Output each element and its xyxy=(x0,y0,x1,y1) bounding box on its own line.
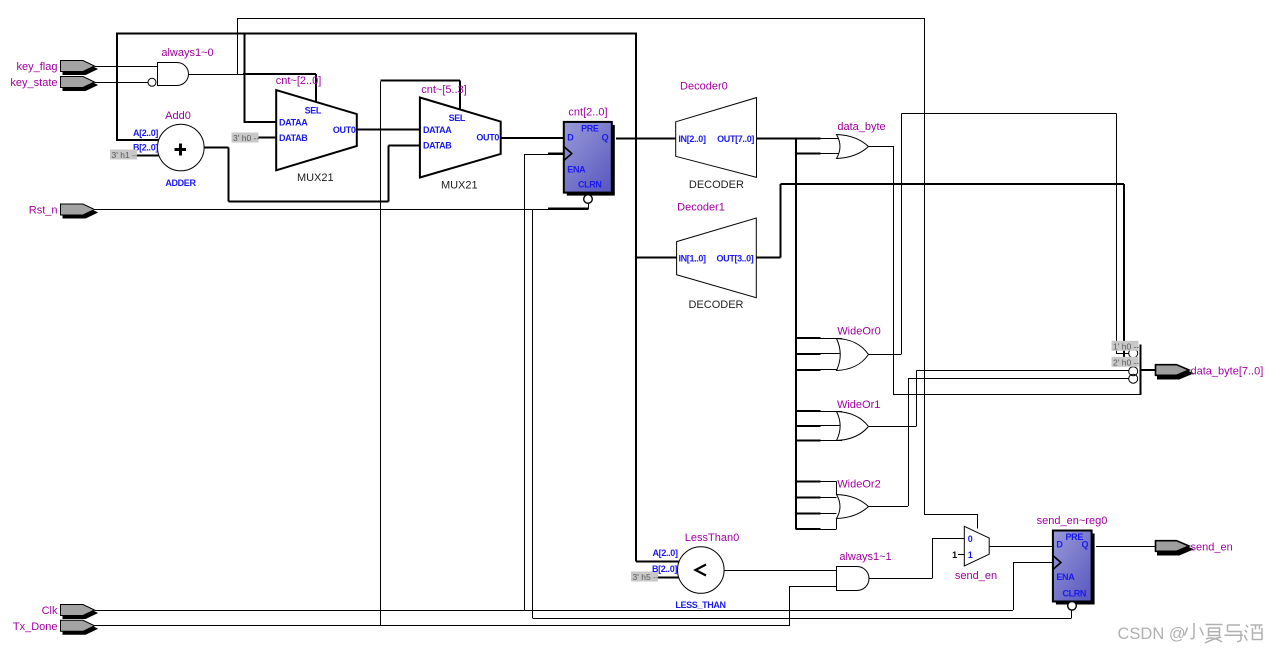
input pin key_state xyxy=(63,80,97,91)
wire: WideOr2 corner joins xyxy=(836,482,838,495)
svg-text:3' h0 --: 3' h0 -- xyxy=(233,133,259,143)
svg-text:always1~1: always1~1 xyxy=(839,551,891,563)
wire: cnt~[2..0] bus overlay to SEL1 xyxy=(243,73,316,75)
wire: Tx_Done net xyxy=(95,625,790,627)
decoder Decoder0 xyxy=(676,98,757,178)
svg-text:send_en: send_en xyxy=(955,570,997,582)
bus merge node circles xyxy=(1129,349,1138,358)
wire: send_en reg Q to pin xyxy=(1096,546,1156,548)
or gate WideOr0 xyxy=(837,339,869,371)
wire: WideOr1 input stub y=411.2 xyxy=(796,410,821,412)
svg-text:DATAA: DATAA xyxy=(279,118,308,128)
wire: data_byte OR bottom input stub xyxy=(796,153,821,155)
svg-text:Q: Q xyxy=(1081,540,1088,550)
wire: const 1 stub at send_en mux xyxy=(958,554,965,556)
input pin Tx_Done xyxy=(63,623,97,634)
svg-text:DATAA: DATAA xyxy=(423,125,452,135)
svg-text:D: D xyxy=(567,133,574,143)
svg-text:LessThan0: LessThan0 xyxy=(685,532,739,544)
wire: mux1 OUT0 to mux2 DATAA xyxy=(357,129,421,131)
svg-text:Decoder0: Decoder0 xyxy=(680,81,728,93)
svg-text:0: 0 xyxy=(968,534,973,544)
wire: cnt~[5..3] bus to SEL2 xyxy=(381,80,461,82)
svg-text:SEL: SEL xyxy=(305,106,322,116)
svg-text:SEL: SEL xyxy=(449,113,466,123)
svg-text:DECODER: DECODER xyxy=(689,179,744,191)
svg-text:cnt~[5..3]: cnt~[5..3] xyxy=(421,84,467,96)
svg-text:CLRN: CLRN xyxy=(578,179,602,189)
svg-text:DECODER: DECODER xyxy=(688,299,743,311)
wire: WideOr1 input stub y=425.9 xyxy=(796,425,821,427)
svg-text:OUT[7..0]: OUT[7..0] xyxy=(717,134,754,144)
nand gate always1~0 xyxy=(158,63,189,86)
wire: WideOr2 input stub y=497.4 xyxy=(796,496,821,498)
wire: bus to data_byte output pin xyxy=(1141,369,1157,371)
svg-text:MUX21: MUX21 xyxy=(441,180,478,192)
svg-text:ADDER: ADDER xyxy=(165,178,196,188)
svg-text:LESS_THAN: LESS_THAN xyxy=(675,600,725,610)
svg-text:send_en~reg0: send_en~reg0 xyxy=(1037,515,1108,527)
or gate WideOr2 xyxy=(837,495,869,519)
svg-text:always1~0: always1~0 xyxy=(161,47,213,59)
wire: LessThan A input xyxy=(636,561,679,563)
comparator LessThan0 xyxy=(678,547,725,594)
wire: WideOr0 out loop to merge xyxy=(869,354,902,356)
wire: Rst_n branch to send_en CLRN xyxy=(532,210,534,619)
wire: WideOr0 input stub y=353.8 xyxy=(796,353,821,355)
svg-text:OUT0: OUT0 xyxy=(476,133,499,143)
svg-text:Tx_Done: Tx_Done xyxy=(13,621,58,633)
svg-text:IN[2..0]: IN[2..0] xyxy=(678,134,706,144)
input pin key_flag xyxy=(63,64,97,75)
svg-text:A[2..0]: A[2..0] xyxy=(133,128,158,138)
svg-text:Rst_n: Rst_n xyxy=(29,205,58,217)
wire: long riser x=636 (cnt bus) xyxy=(635,34,637,562)
wire: adder output to mux2 DATAB xyxy=(204,147,229,149)
value label 2h0 (bus merge const) xyxy=(1112,357,1139,367)
svg-text:data_byte[7..0]: data_byte[7..0] xyxy=(1191,366,1264,378)
wire: Tx_Done riser to AND in xyxy=(789,587,791,626)
wire: riser x=246 to mux1 DATAA xyxy=(244,34,246,123)
wire: Clk riser to send_en reg clock xyxy=(1013,563,1015,611)
svg-text:Add0: Add0 xyxy=(165,110,191,122)
wire: mux1 DATAB input from 3h0 xyxy=(258,137,277,139)
and gate always1~1 xyxy=(837,567,870,591)
svg-text:B[2..0]: B[2..0] xyxy=(652,564,677,574)
svg-text:1: 1 xyxy=(968,550,973,560)
wire: WideOr2 input stub y=529.2 xyxy=(796,528,821,530)
svg-text:CSDN @: CSDN @ xyxy=(1118,625,1186,643)
wire: SEL2 drop xyxy=(459,81,461,111)
wire: LessThan out to AND xyxy=(724,570,838,572)
wire: Tx_Done riser x=380.5 to mux2 SEL net xyxy=(380,82,382,626)
wire: NAND out riser x=237 xyxy=(237,18,239,75)
wire: merge vertical bus xyxy=(1140,345,1142,396)
svg-text:ENA: ENA xyxy=(567,165,586,175)
decoder Decoder1 xyxy=(677,218,757,298)
wire: adder B input from 3h1 xyxy=(137,155,160,157)
wire: WideOr1 input stub y=440.6 xyxy=(796,440,821,442)
wire: key_flag to NAND xyxy=(95,66,158,68)
wire: SEL1 drop xyxy=(315,74,317,103)
input pin Rst_n xyxy=(63,207,97,218)
svg-text:WideOr0: WideOr0 xyxy=(837,326,880,338)
wire: key_state to NAND bubble xyxy=(95,82,149,84)
wire: LessThan B input from 3h5 xyxy=(658,577,679,579)
wire: WideOr2 out to merge xyxy=(869,506,909,508)
input pin Clk xyxy=(63,608,97,619)
or gate WideOr1 xyxy=(837,412,869,441)
wire: top line y=15 xyxy=(237,18,924,20)
svg-text:1: 1 xyxy=(952,550,957,560)
value label 3h1 (adder B const) xyxy=(110,150,137,160)
output pin data_byte[7..0] xyxy=(1158,368,1192,379)
wire: mux1 DATAA input xyxy=(244,121,277,123)
svg-text:key_state: key_state xyxy=(10,77,57,89)
register cnt xyxy=(567,125,615,196)
svg-text:cnt~[2..0]: cnt~[2..0] xyxy=(276,75,322,87)
wire: NAND output xyxy=(188,74,316,76)
wire: adder A input xyxy=(116,139,159,141)
mux21 #2 cnt~[5..3] xyxy=(420,98,501,178)
wire: Rst_n net xyxy=(95,209,589,211)
wire: WideOr2 input stub y=513.4 xyxy=(796,512,821,514)
svg-text:Clk: Clk xyxy=(42,605,58,617)
wire: mux2 OUT0 to register D xyxy=(501,137,565,139)
wire: Decoder1 OUT to bus xyxy=(757,257,781,259)
register send_en~reg0 xyxy=(1056,534,1095,605)
svg-text:OUT[3..0]: OUT[3..0] xyxy=(717,253,754,263)
wire: WideOr2 input stub y=481.6 xyxy=(796,481,821,483)
svg-text:3' h1 --: 3' h1 -- xyxy=(112,150,138,160)
svg-text:2' h0 --: 2' h0 -- xyxy=(1113,357,1139,367)
wire: AND1 out to send_en mux xyxy=(869,578,933,580)
svg-text:send_en: send_en xyxy=(1191,542,1233,554)
wire: send_en mux out to reg D xyxy=(989,546,1053,548)
or gate data_byte xyxy=(837,135,869,159)
svg-text:DATAB: DATAB xyxy=(423,141,452,151)
adder Add0 xyxy=(158,124,205,171)
svg-text:data_byte: data_byte xyxy=(837,121,885,133)
value label 1h0 (bus merge const) xyxy=(1112,341,1139,351)
wire: or-input bus riser x=796 xyxy=(795,139,797,530)
svg-text:ENA: ENA xyxy=(1056,572,1075,582)
svg-text:PRE: PRE xyxy=(581,123,599,133)
value label 3h5 (LessThan B const) xyxy=(631,572,658,582)
wire: WideOr0 input stub y=369.8 xyxy=(796,369,821,371)
svg-text:DATAB: DATAB xyxy=(279,133,308,143)
wire: cnt bus top feedback y=33.5 xyxy=(116,33,637,35)
svg-text:D: D xyxy=(1056,540,1063,550)
wire: WideOr1 out to merge xyxy=(869,426,917,428)
svg-text:WideOr1: WideOr1 xyxy=(837,399,880,411)
wire: riser x=924 to send_en mux sel xyxy=(924,18,926,514)
wire: cnt register Q to Decoder0 IN xyxy=(616,138,676,140)
wire: Decoder1 IN input xyxy=(636,257,677,259)
svg-text:MUX21: MUX21 xyxy=(297,172,334,184)
output pin send_en xyxy=(1158,544,1192,555)
svg-text:key_flag: key_flag xyxy=(17,61,58,73)
svg-text:CLRN: CLRN xyxy=(1062,589,1086,599)
value label 3h0 (mux1 DATAB const) xyxy=(232,133,259,143)
svg-text:Decoder1: Decoder1 xyxy=(677,202,725,214)
wire: Clk riser to cnt clock xyxy=(524,154,526,610)
svg-text:A[2..0]: A[2..0] xyxy=(653,548,678,558)
svg-text:WideOr2: WideOr2 xyxy=(837,479,880,491)
wire: Decoder0 OUT to or-bus xyxy=(757,138,821,140)
wire: WideOr0 input stub y=338 xyxy=(796,337,821,339)
mux send_en xyxy=(964,526,989,566)
svg-text:IN[1..0]: IN[1..0] xyxy=(679,253,707,263)
wire: Clk net xyxy=(95,610,1014,612)
svg-text:cnt[2..0]: cnt[2..0] xyxy=(568,107,607,119)
wire: left riser x=117 to adder A xyxy=(116,34,118,141)
svg-text:1' h0 --: 1' h0 -- xyxy=(1113,341,1139,351)
svg-text:OUT0: OUT0 xyxy=(333,125,356,135)
wire: data_byte OR out loop xyxy=(869,146,894,148)
mux21 #1 cnt~[2..0] xyxy=(276,90,357,170)
svg-text:Q: Q xyxy=(602,133,609,143)
